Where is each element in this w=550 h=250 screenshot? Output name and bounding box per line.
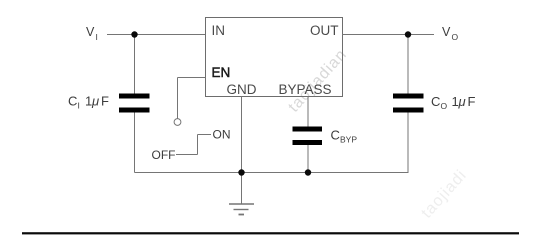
capacitor Ci plates xyxy=(119,94,150,99)
switch terminal open circle xyxy=(174,119,181,126)
svg-text:taojiadian: taojiadian xyxy=(285,46,350,116)
wire: junction down to Ci top plate xyxy=(134,35,136,94)
svg-text:O: O xyxy=(452,32,459,42)
capacitor Co plates xyxy=(393,94,424,99)
svg-text:OFF: OFF xyxy=(152,148,176,162)
capacitor Cbyp plates xyxy=(293,127,323,132)
wire: OFF lead xyxy=(176,154,198,156)
svg-text:OUT: OUT xyxy=(310,23,339,38)
svg-text:O: O xyxy=(441,101,448,111)
wire: Ci bottom plate down to ground rail xyxy=(134,113,136,173)
svg-text:taojiadi: taojiadi xyxy=(418,167,470,222)
svg-text:I: I xyxy=(78,101,80,111)
svg-text:F: F xyxy=(101,94,109,109)
svg-text:C: C xyxy=(331,128,340,143)
svg-text:BYPASS: BYPASS xyxy=(279,82,332,97)
wire: Cbyp bottom to rail xyxy=(307,145,309,173)
svg-text:μ: μ xyxy=(91,94,99,109)
svg-text:F: F xyxy=(468,94,476,109)
wire: switch vertical step xyxy=(197,135,199,155)
op regulator U1 box xyxy=(206,18,343,97)
wire: GND pin down to rail xyxy=(241,96,243,173)
wire: OUT to Vo xyxy=(342,34,434,36)
svg-text:V: V xyxy=(442,25,451,39)
node: input junction dot xyxy=(131,31,137,37)
svg-text:I: I xyxy=(96,32,98,42)
svg-text:ON: ON xyxy=(213,128,231,142)
wire: Co bottom down to rail corner xyxy=(407,113,409,173)
wire: Vi to input junction xyxy=(107,34,206,36)
ground symbol stem xyxy=(241,173,243,205)
svg-text:V: V xyxy=(86,25,95,39)
svg-text:μ: μ xyxy=(458,94,466,109)
ground rail wire xyxy=(135,172,409,174)
wire: EN stub down to switch terminal xyxy=(177,78,179,119)
svg-text:C: C xyxy=(431,94,440,109)
svg-text:BYP: BYP xyxy=(340,135,357,145)
wire: output junction down to Co xyxy=(407,35,409,94)
node: output junction dot xyxy=(405,31,411,37)
watermark xyxy=(285,46,470,222)
node: rail junction at Cbyp xyxy=(305,169,311,175)
wire: EN stub from box xyxy=(178,77,206,79)
svg-text:IN: IN xyxy=(212,23,226,38)
ground symbol bars xyxy=(229,203,254,205)
wire: ON lead xyxy=(198,134,212,136)
svg-text:C: C xyxy=(68,94,77,109)
node: ground rail junction at GND pin xyxy=(238,169,244,175)
svg-text:GND: GND xyxy=(227,82,257,97)
wire: BYPASS pin down to Cbyp xyxy=(307,96,309,127)
bottom rule xyxy=(22,232,519,234)
svg-text:EN: EN xyxy=(212,65,231,80)
